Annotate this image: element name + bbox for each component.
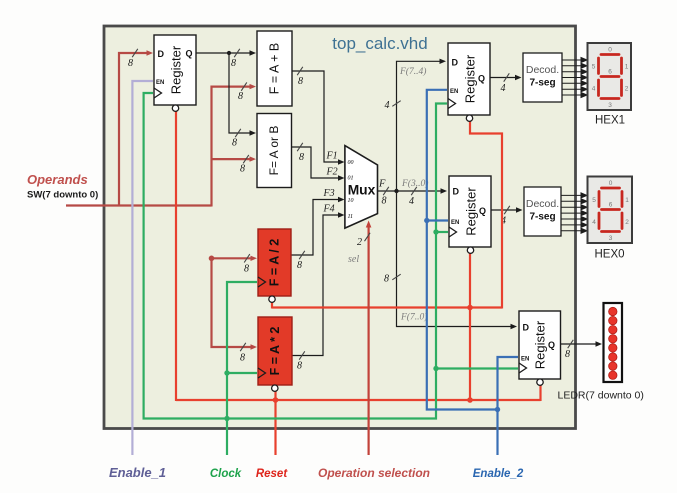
svg-text:F(7..0): F(7..0) xyxy=(400,312,427,323)
wire: Clock entry and risers xyxy=(224,282,257,455)
svg-text:5: 5 xyxy=(592,197,596,204)
wire: Clock rail to register R1 xyxy=(144,93,228,419)
svg-text:8: 8 xyxy=(382,196,387,207)
svg-text:0: 0 xyxy=(609,180,613,187)
svg-text:Q: Q xyxy=(186,49,193,59)
svg-text:Decod.: Decod. xyxy=(526,64,559,76)
svg-text:4: 4 xyxy=(409,196,414,207)
svg-text:8: 8 xyxy=(298,76,303,87)
svg-text:Reset: Reset xyxy=(256,468,288,480)
svg-text:F2: F2 xyxy=(326,167,338,178)
svg-text:Mux: Mux xyxy=(348,183,376,198)
wire: adder output to Mux F1 (8) xyxy=(292,67,345,165)
wires: decoder outputs to HEX0 xyxy=(561,193,587,233)
svg-text:Operands: Operands xyxy=(27,172,88,187)
svg-text:7-seg: 7-seg xyxy=(529,212,555,223)
svg-text:F = A / 2: F = A / 2 xyxy=(268,239,282,286)
svg-text:Q: Q xyxy=(479,206,486,216)
wire: SW bus to divider input (8) xyxy=(209,254,257,274)
svg-text:LEDR(7 downto 0): LEDR(7 downto 0) xyxy=(558,390,644,402)
svg-text:11: 11 xyxy=(348,214,354,220)
svg-text:6: 6 xyxy=(609,202,613,209)
svg-text:3: 3 xyxy=(608,102,612,109)
top_calc entity boundary xyxy=(104,26,576,429)
svg-text:Enable_1: Enable_1 xyxy=(109,465,166,480)
wire: SW bus to or-gate B (8) xyxy=(212,155,257,175)
wire: SW bus to register R1 D (8) xyxy=(119,49,153,207)
wire: Mux output F (8) xyxy=(378,179,399,207)
wire: R1 Q to or-gate A (8) xyxy=(229,53,256,149)
svg-text:8: 8 xyxy=(232,138,237,149)
svg-text:8: 8 xyxy=(384,274,389,285)
svg-text:3: 3 xyxy=(609,235,613,242)
wire: Enable_2 rail to registers R2 R3 xyxy=(424,90,498,410)
wire: R1 Q to adder A (8) xyxy=(196,49,256,69)
svg-text:8: 8 xyxy=(238,91,243,102)
svg-text:D: D xyxy=(453,187,460,197)
wire: F(7..0) to register R4 D (8) xyxy=(384,191,517,329)
svg-text:HEX1: HEX1 xyxy=(595,115,625,127)
wire: Enable_1 to register R1 EN xyxy=(132,81,153,455)
display HEX0 xyxy=(588,177,633,261)
svg-text:0: 0 xyxy=(608,47,612,54)
svg-text:SW(7 downto 0): SW(7 downto 0) xyxy=(27,190,98,201)
decoder 7-seg for HEX0 xyxy=(524,187,561,236)
svg-text:EN: EN xyxy=(450,89,458,95)
svg-text:2: 2 xyxy=(625,86,629,93)
display HEX1 xyxy=(588,43,632,127)
register R4 (LEDR) xyxy=(519,311,561,385)
multiplier F=A*2 xyxy=(258,317,292,391)
svg-text:Operation selection: Operation selection xyxy=(318,466,430,480)
wire: Reset rail horizontal xyxy=(176,397,541,403)
svg-text:Register: Register xyxy=(533,320,548,369)
svg-text:F3: F3 xyxy=(323,188,335,199)
svg-text:2: 2 xyxy=(625,219,629,226)
svg-text:F: F xyxy=(378,179,386,190)
mux MUX xyxy=(345,146,378,229)
wire: Reset riser to R3 and rail to divider/R2 xyxy=(272,121,502,401)
svg-text:8: 8 xyxy=(128,58,133,69)
svg-text:F(7..4): F(7..4) xyxy=(399,66,426,77)
svg-text:HEX0: HEX0 xyxy=(594,249,624,261)
svg-text:F1: F1 xyxy=(326,151,338,162)
wire: F(3..0) to register R3 D (4) xyxy=(397,178,448,207)
input label Operands / SW(7 downto 0) xyxy=(27,172,98,201)
svg-text:Clock: Clock xyxy=(210,468,242,480)
svg-text:EN: EN xyxy=(451,220,459,226)
svg-text:F = A + B: F = A + B xyxy=(268,43,282,94)
svg-text:4: 4 xyxy=(592,86,596,93)
svg-text:EN: EN xyxy=(521,356,529,362)
wire: R2 Q to decoder HEX1 (4) xyxy=(490,73,522,94)
wire: SW operand bus horizontal xyxy=(66,204,212,206)
wire: F(7..4) to register R2 D (4) xyxy=(385,59,447,191)
svg-text:Decod.: Decod. xyxy=(526,198,559,210)
svg-text:1: 1 xyxy=(625,197,629,204)
wire: Enable_2 entry xyxy=(495,357,518,455)
svg-text:Register: Register xyxy=(463,54,478,103)
svg-text:Q: Q xyxy=(548,340,555,350)
svg-text:8: 8 xyxy=(231,58,236,69)
svg-text:Enable_2: Enable_2 xyxy=(473,468,524,480)
wire: R4 Q to LEDR (8) xyxy=(561,340,603,360)
svg-text:5: 5 xyxy=(592,64,596,71)
svg-text:8: 8 xyxy=(297,361,302,372)
svg-text:4: 4 xyxy=(501,83,506,94)
svg-text:4: 4 xyxy=(592,219,596,226)
wire: Reset riser to register R1 xyxy=(175,111,177,401)
svg-text:F= A or B: F= A or B xyxy=(267,126,281,176)
or-gate F=A or B xyxy=(257,114,292,188)
wires: decoder outputs to HEX1 xyxy=(562,58,587,98)
register R3 (HEX0) xyxy=(449,176,491,253)
svg-text:8: 8 xyxy=(299,152,304,163)
svg-text:8: 8 xyxy=(240,164,245,175)
wire: Reset entry to multiplier xyxy=(274,391,276,455)
svg-text:D: D xyxy=(158,49,165,59)
svg-text:F(3..0): F(3..0) xyxy=(401,178,428,189)
svg-text:1: 1 xyxy=(625,64,629,71)
adder F=A+B xyxy=(257,31,292,106)
LEDR bar xyxy=(604,303,623,382)
svg-text:8: 8 xyxy=(240,353,245,364)
svg-text:D: D xyxy=(523,322,530,332)
register R2 (HEX1) xyxy=(448,43,490,121)
svg-text:Q: Q xyxy=(478,74,485,84)
svg-text:F4: F4 xyxy=(323,204,335,215)
svg-text:top_calc.vhd: top_calc.vhd xyxy=(332,34,427,53)
svg-text:EN: EN xyxy=(156,80,164,86)
svg-text:01: 01 xyxy=(348,176,354,182)
svg-text:2: 2 xyxy=(357,237,362,248)
wire: R3 Q to decoder HEX0 (4) xyxy=(492,206,523,227)
svg-text:00: 00 xyxy=(348,160,354,166)
svg-text:6: 6 xyxy=(608,69,612,76)
svg-text:7-seg: 7-seg xyxy=(529,78,555,89)
svg-text:F = A * 2: F = A * 2 xyxy=(268,327,282,376)
svg-text:D: D xyxy=(452,57,459,67)
wire: Reset riser to register R4 xyxy=(539,385,541,401)
wire: SW bus to adder B (8) xyxy=(212,82,257,206)
svg-text:Register: Register xyxy=(464,187,479,236)
wire: multiplier output to Mux F4 (8) xyxy=(292,204,345,372)
svg-text:8: 8 xyxy=(244,264,249,275)
decoder 7-seg for HEX1 xyxy=(523,53,562,102)
register R1 (operand register) xyxy=(154,35,196,111)
svg-text:Register: Register xyxy=(169,45,184,94)
divider F=A/2 xyxy=(258,229,291,302)
wire: or-gate output to Mux F2 (8) xyxy=(292,143,345,181)
wire: SW bus to multiplier input (8) xyxy=(212,257,258,364)
wire: Operation selection to Mux sel (2) xyxy=(348,221,371,456)
svg-text:8: 8 xyxy=(297,260,302,271)
svg-text:4: 4 xyxy=(385,100,390,111)
wire: divider output to Mux F3 (8) xyxy=(291,188,345,271)
svg-text:10: 10 xyxy=(348,198,354,204)
svg-text:8: 8 xyxy=(565,349,570,360)
wire: Clock rail to registers R2 R3 R4 xyxy=(226,104,518,419)
svg-text:sel: sel xyxy=(348,254,359,265)
